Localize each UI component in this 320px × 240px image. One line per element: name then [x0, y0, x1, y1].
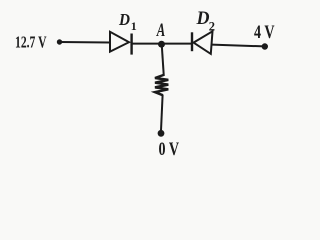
- diode D2 triangle: [194, 31, 213, 54]
- svg-text:D: D: [118, 10, 130, 29]
- wire resistor to 0V terminal: [161, 95, 163, 131]
- svg-text:2: 2: [209, 20, 215, 34]
- diode D1 cathode bar: [130, 34, 132, 55]
- node 4V terminal dot: [262, 43, 268, 49]
- svg-text:A: A: [156, 20, 165, 41]
- node 12.7V terminal dot: [57, 39, 62, 44]
- resistor R1 zigzag: [155, 75, 168, 95]
- diode D2 cathode bar: [191, 32, 193, 51]
- label D2: [196, 9, 216, 34]
- svg-text:12.7 V: 12.7 V: [15, 33, 47, 52]
- svg-text:D: D: [196, 9, 210, 29]
- label D1: [118, 10, 137, 33]
- node A dot: [158, 41, 165, 48]
- node 0V terminal dot: [158, 130, 165, 137]
- svg-text:1: 1: [131, 19, 137, 33]
- wire D2 anode to 4V terminal: [212, 45, 265, 47]
- wire D1 cathode to node A to D2 cathode: [132, 43, 192, 45]
- wire 12.7V to D1 anode: [60, 41, 111, 44]
- svg-text:4 V: 4 V: [254, 22, 275, 43]
- svg-text:0 V: 0 V: [159, 139, 180, 160]
- diode D1 triangle: [110, 32, 129, 52]
- wire node A down to resistor: [162, 44, 164, 76]
